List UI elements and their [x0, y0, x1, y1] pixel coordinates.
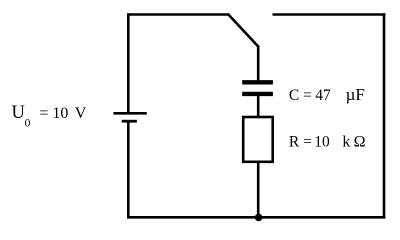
svg-text:R =10kΩ: R =10kΩ	[289, 134, 366, 151]
wire top-left horizontal	[127, 13, 229, 16]
wire top-right horizontal (switch fixed contact)	[273, 13, 386, 16]
wire left vertical lower (battery bottom)	[127, 121, 130, 218]
battery U0 long plate (positive)	[113, 112, 146, 115]
svg-text:C =47µF: C =47µF	[289, 85, 365, 104]
node junction dot	[255, 214, 263, 222]
switch S1 blade (diagonal, open)	[228, 14, 259, 47]
wire capacitor to resistor	[257, 95, 260, 117]
capacitor C top plate	[242, 80, 273, 84]
wire right vertical	[383, 13, 386, 218]
wire left vertical upper (battery top)	[127, 13, 130, 112]
capacitor C bottom plate	[242, 92, 273, 96]
wire resistor to bottom node	[257, 162, 260, 217]
wire switch to capacitor	[257, 46, 260, 82]
wire bottom horizontal	[127, 216, 385, 219]
resistor R box	[243, 117, 273, 162]
battery U0 short plate (negative)	[122, 120, 137, 123]
